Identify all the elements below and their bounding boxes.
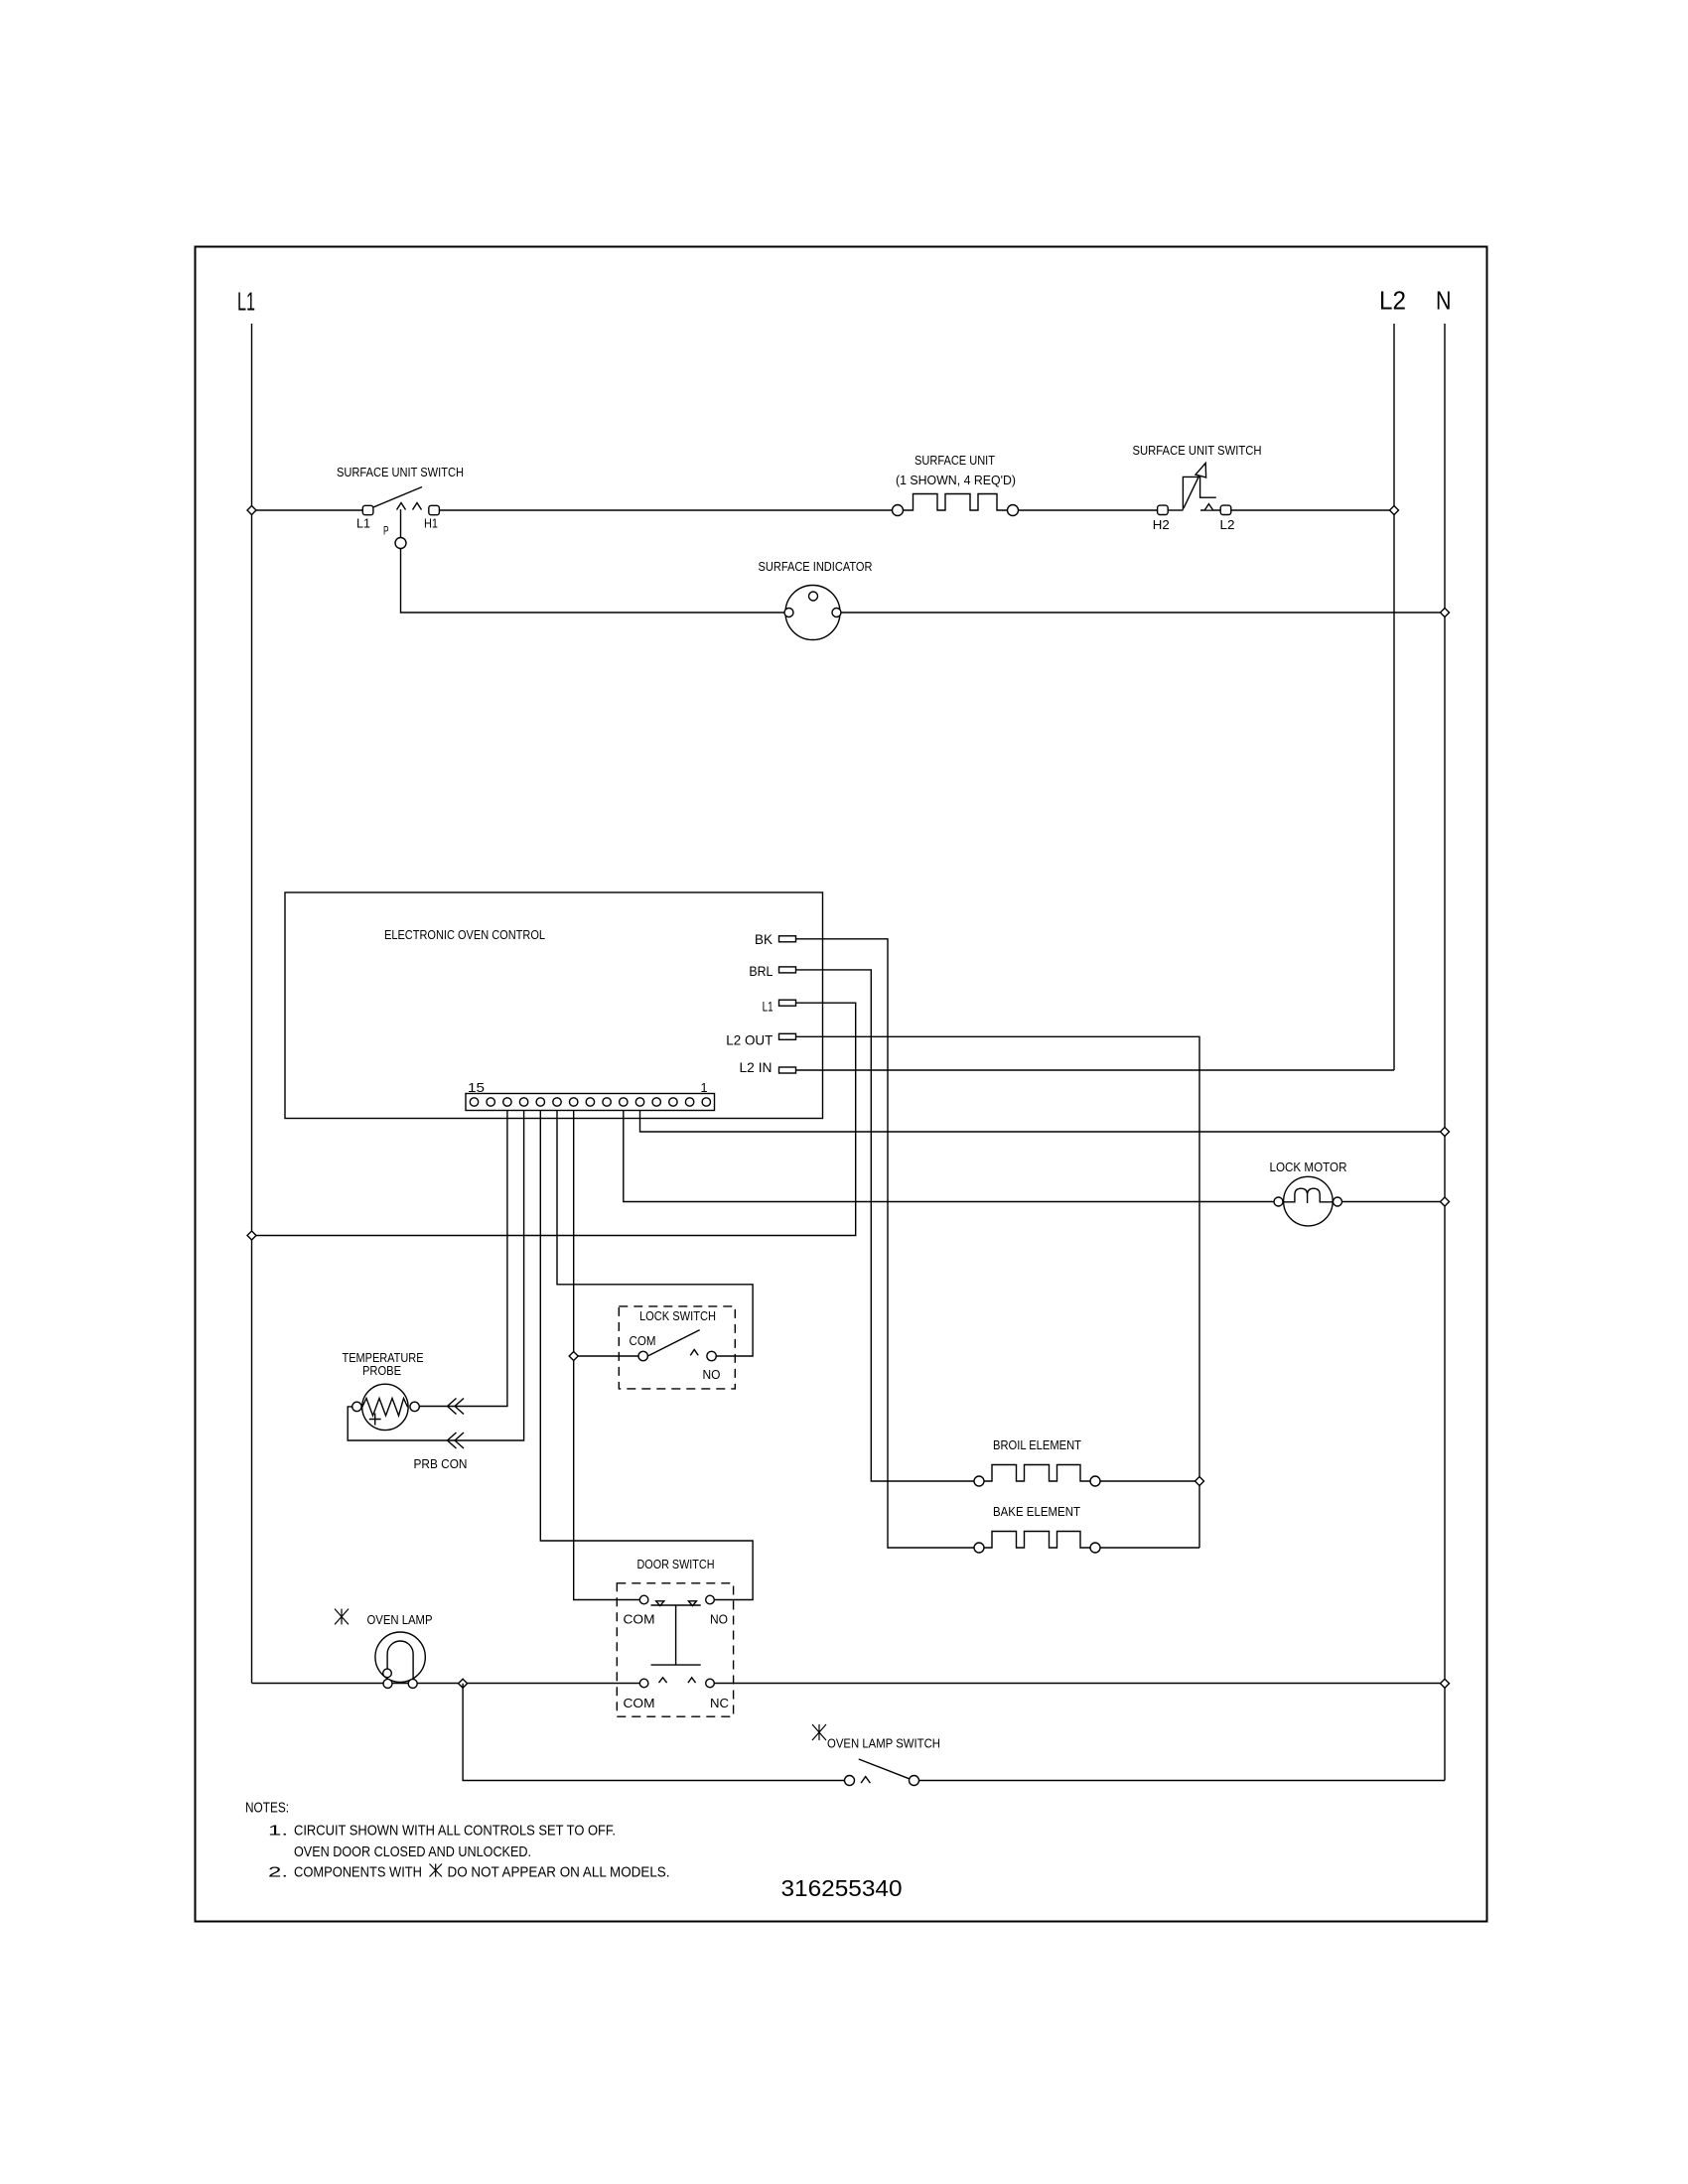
svg-text:N: N — [1436, 286, 1452, 316]
wire pin4 to probe low — [348, 1111, 523, 1441]
lamp surface indicator — [759, 559, 873, 640]
wire bottom rail right — [714, 1683, 1445, 1685]
notes text — [245, 1801, 670, 1881]
motor M1 lock motor — [1270, 1160, 1347, 1226]
svg-text:CIRCUIT SHOWN WITH ALL CONTROL: CIRCUIT SHOWN WITH ALL CONTROLS SET TO O… — [294, 1824, 616, 1840]
node junction N rail1 — [1441, 1128, 1450, 1137]
pin L1 — [763, 998, 796, 1014]
wire L1 to L1 bus — [252, 1003, 856, 1235]
svg-text:P: P — [383, 526, 389, 538]
wire BK to bake element — [796, 939, 975, 1548]
border frame — [196, 247, 1487, 1922]
wire pin3 to probe high — [419, 1111, 507, 1407]
svg-text:2.: 2. — [268, 1865, 288, 1881]
svg-text:L2 OUT: L2 OUT — [726, 1032, 773, 1048]
node junction L2 top rail — [1390, 506, 1399, 515]
svg-text:LOCK MOTOR: LOCK MOTOR — [1270, 1160, 1347, 1174]
wire pin6 to lock switch NO — [557, 1111, 753, 1357]
svg-text:LOCK SWITCH: LOCK SWITCH — [639, 1308, 716, 1323]
switch S2 surface unit switch right — [1133, 443, 1262, 515]
svg-text:(1 SHOWN, 4 REQ'D): (1 SHOWN, 4 REQ'D) — [896, 473, 1016, 487]
svg-text:SURFACE INDICATOR: SURFACE INDICATOR — [759, 559, 873, 574]
svg-text:NOTES:: NOTES: — [245, 1801, 289, 1817]
lamp oven lamp — [335, 1609, 433, 1689]
svg-text:ELECTRONIC OVEN CONTROL: ELECTRONIC OVEN CONTROL — [384, 927, 545, 942]
svg-text:OVEN LAMP: OVEN LAMP — [367, 1612, 433, 1627]
node junction N bottom rail — [1441, 1679, 1450, 1688]
svg-text:1.: 1. — [268, 1824, 288, 1840]
svg-text:COM: COM — [624, 1696, 655, 1710]
wire oven lamp switch branch — [463, 1684, 1445, 1781]
svg-text:OVEN DOOR CLOSED AND UNLOCKED.: OVEN DOOR CLOSED AND UNLOCKED. — [294, 1844, 531, 1860]
node junction pin7 lock — [569, 1352, 578, 1361]
pin BRL — [749, 963, 795, 979]
svg-text:L1: L1 — [763, 998, 774, 1014]
wire pin7 down — [574, 1111, 640, 1600]
svg-text:L2: L2 — [1220, 517, 1235, 532]
connector chevrons PRB CON — [448, 1399, 465, 1449]
svg-text:H2: H2 — [1153, 517, 1170, 532]
resistor bake element — [974, 1504, 1199, 1553]
switch S3 lock switch — [619, 1306, 735, 1389]
node junction N indicator — [1441, 609, 1450, 617]
svg-text:NC: NC — [710, 1696, 729, 1710]
wire BRL to broil element — [796, 970, 975, 1481]
wire indicator to N — [841, 612, 1445, 614]
svg-text:SURFACE UNIT: SURFACE UNIT — [914, 453, 995, 468]
wire L2 OUT to elements — [796, 1036, 1200, 1548]
svg-text:L1: L1 — [356, 516, 370, 531]
connector J1 terminal strip — [466, 1080, 715, 1111]
svg-text:BAKE ELEMENT: BAKE ELEMENT — [993, 1504, 1080, 1519]
net L2 bus — [1379, 286, 1406, 1071]
svg-text:L1: L1 — [237, 287, 255, 317]
node junction L1 bus lower — [247, 1231, 256, 1240]
wire L2 IN to L2 bus — [796, 1069, 1395, 1071]
svg-text:OVEN LAMP SWITCH: OVEN LAMP SWITCH — [827, 1736, 940, 1751]
svg-text:L2 IN: L2 IN — [740, 1059, 773, 1075]
svg-text:L2: L2 — [1379, 286, 1406, 316]
wire P branch — [401, 509, 784, 613]
switch S5 oven lamp switch — [812, 1724, 940, 1786]
net N bus — [1436, 286, 1452, 1781]
svg-text:NO: NO — [703, 1367, 721, 1382]
node junction N rail2 — [1441, 1197, 1450, 1206]
svg-text:COM: COM — [624, 1612, 655, 1627]
svg-text:BK: BK — [755, 931, 774, 947]
svg-text:15: 15 — [468, 1080, 485, 1095]
pin L2 IN — [740, 1059, 796, 1075]
svg-text:BRL: BRL — [749, 963, 773, 979]
wire lock switch COM feed — [574, 1355, 638, 1357]
svg-text:COMPONENTS WITH: COMPONENTS WITH — [294, 1865, 422, 1881]
node junction broil L2OUT — [1196, 1477, 1204, 1486]
svg-text:PROBE: PROBE — [362, 1363, 401, 1378]
svg-text:DOOR SWITCH: DOOR SWITCH — [637, 1557, 715, 1571]
node P contact circle — [395, 538, 406, 549]
node junction L1 top rail — [247, 506, 256, 515]
svg-text:316255340: 316255340 — [781, 1875, 903, 1901]
wire bottom rail left — [252, 1683, 640, 1685]
svg-text:SURFACE UNIT SWITCH: SURFACE UNIT SWITCH — [337, 465, 464, 479]
svg-text:H1: H1 — [424, 516, 438, 531]
thermistor temperature probe — [343, 1350, 468, 1471]
svg-text:BROIL ELEMENT: BROIL ELEMENT — [993, 1437, 1081, 1452]
net L1 bus — [237, 287, 255, 1684]
wire pin5 to door switch NO — [540, 1111, 753, 1600]
svg-text:PRB CON: PRB CON — [414, 1456, 468, 1471]
resistor surface unit element — [893, 453, 1019, 516]
wire top rail L1 to L2 — [252, 509, 1395, 511]
svg-text:SURFACE UNIT SWITCH: SURFACE UNIT SWITCH — [1133, 443, 1262, 458]
wire lock motor to N — [1342, 1201, 1446, 1203]
pin L2 OUT — [726, 1032, 795, 1048]
wire pin10 to lock motor — [624, 1111, 1274, 1202]
svg-text:1: 1 — [701, 1080, 708, 1095]
switch S4 door switch — [617, 1557, 733, 1716]
wire pin11 to N — [640, 1111, 1446, 1133]
node junction oven lamp branch — [459, 1679, 468, 1688]
pins terminal strip circles — [470, 1098, 710, 1106]
op-amp U1 electronic oven control box — [285, 892, 823, 1119]
svg-text:DO NOT APPEAR ON ALL MODELS.: DO NOT APPEAR ON ALL MODELS. — [448, 1865, 670, 1881]
pin BK — [755, 931, 796, 947]
svg-text:NO: NO — [710, 1612, 728, 1627]
svg-text:COM: COM — [630, 1333, 656, 1348]
resistor broil element — [974, 1437, 1199, 1486]
switch S1 surface unit switch left — [337, 465, 464, 515]
